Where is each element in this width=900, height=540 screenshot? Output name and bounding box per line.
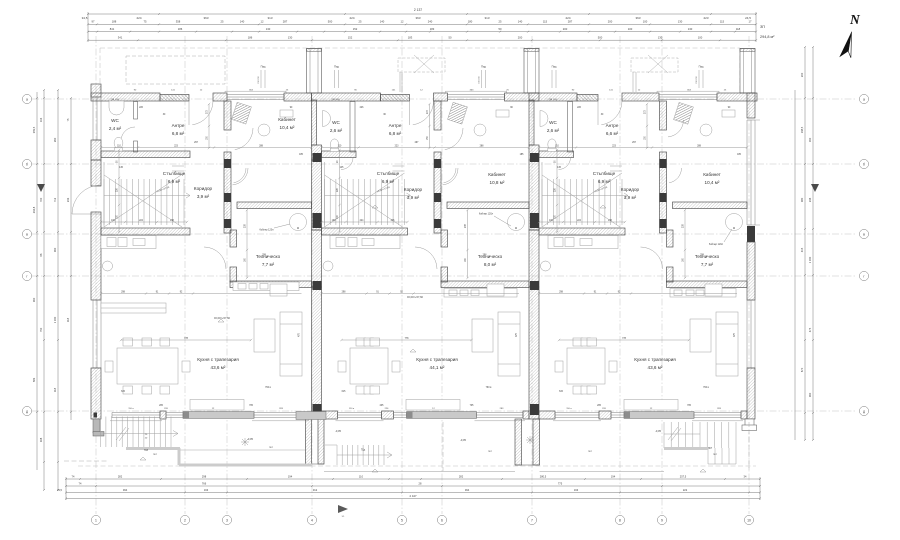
window [112, 413, 160, 418]
window [555, 413, 599, 418]
column [313, 404, 322, 415]
unit C ceiling lamp circle [541, 261, 551, 271]
grid bubbles right [859, 94, 868, 103]
party wall B-C kitchen [529, 287, 539, 419]
window [394, 413, 407, 418]
wall [434, 101, 441, 130]
svg-text:110 в: 110 в [349, 408, 355, 410]
svg-text:бойлер 120л: бойлер 120л [709, 243, 724, 246]
left outer wall lower [91, 368, 101, 419]
svg-text:2 447: 2 447 [410, 494, 417, 498]
bottom section marker [338, 505, 348, 513]
svg-text:6,8 м²: 6,8 м² [172, 131, 185, 136]
unit A kitchen counter along tech wall [233, 282, 299, 291]
svg-text:313: 313 [484, 16, 489, 20]
left terrace wall stub L-shape [93, 419, 100, 433]
stair tower right [740, 49, 755, 94]
wall [322, 228, 408, 235]
svg-text:183: 183 [430, 27, 435, 31]
svg-text:Пад: Пад [481, 65, 486, 69]
unit A cabinet door swing [233, 168, 249, 185]
sliding glass door [183, 412, 254, 419]
terrace B dashed edge [442, 422, 444, 471]
wall [160, 411, 166, 419]
column [313, 213, 322, 228]
svg-text:бойлер 120л: бойлер 120л [479, 213, 494, 216]
svg-text:Антре: Антре [606, 123, 619, 128]
svg-text:ЗП: ЗП [760, 25, 765, 29]
svg-text:110 в: 110 в [566, 408, 572, 410]
svg-text:257,5: 257,5 [680, 474, 687, 478]
svg-text:775: 775 [558, 481, 563, 485]
svg-text:224: 224 [349, 16, 354, 20]
wall [741, 411, 747, 419]
unit C boiler [726, 214, 743, 231]
column [434, 159, 441, 168]
unit A cabinet door swing2 [234, 168, 246, 183]
svg-text:2,6 м²: 2,6 м² [547, 128, 560, 133]
unit A staircase [104, 162, 190, 227]
svg-text:Кабинет: Кабинет [488, 172, 506, 177]
wall [441, 230, 448, 247]
svg-text:312: 312 [313, 488, 318, 492]
wall [447, 202, 529, 209]
svg-text:6,9 м²: 6,9 м² [168, 179, 181, 184]
party wall B-C lower [529, 230, 539, 287]
svg-text:583: 583 [32, 377, 36, 382]
wall [434, 152, 441, 233]
svg-text:240: 240 [428, 20, 433, 24]
svg-text:500: 500 [598, 36, 603, 40]
unit B top wall [505, 93, 540, 101]
left outer wall corner pier [91, 84, 101, 97]
svg-text:224: 224 [136, 16, 141, 20]
svg-text:193: 193 [574, 488, 579, 492]
window [611, 413, 624, 418]
unit C lintel [577, 95, 598, 102]
unit B top window [448, 95, 505, 100]
svg-text:700: 700 [39, 197, 43, 202]
unit C kitchen counter [548, 236, 618, 249]
exterior stair unit B [337, 445, 392, 465]
svg-text:бойлер 120л: бойлер 120л [259, 229, 274, 232]
svg-text:363: 363 [635, 16, 640, 20]
svg-text:1 160: 1 160 [808, 256, 812, 263]
svg-text:9: 9 [661, 519, 663, 523]
svg-text:25: 25 [221, 20, 224, 24]
left entry door swing [72, 185, 101, 214]
svg-text:34,5: 34,5 [82, 16, 88, 20]
sliding glass door [624, 412, 694, 419]
wall [599, 411, 611, 419]
door swing [192, 101, 213, 125]
svg-text:394: 394 [123, 488, 128, 492]
svg-text:Техническо: Техническо [695, 254, 720, 259]
svg-text:760 в: 760 в [265, 387, 271, 389]
svg-text:д: д [863, 410, 865, 414]
exterior stair unit A [101, 417, 179, 448]
svg-text:3: 3 [226, 519, 228, 523]
svg-text:50: 50 [449, 36, 452, 40]
svg-text:2: 2 [184, 519, 186, 523]
svg-text:140: 140 [518, 20, 523, 24]
wall [382, 411, 394, 419]
unit A basin [109, 101, 124, 115]
svg-text:193: 193 [204, 488, 209, 492]
party wall B-C upper [529, 145, 539, 160]
unit C top wall [622, 93, 659, 101]
unit B cabinet door swing [443, 168, 459, 185]
svg-text:43,6 м²: 43,6 м² [211, 365, 226, 370]
grid bubbles bottom [91, 515, 100, 524]
svg-text:в: в [863, 233, 865, 237]
left kitchen window [93, 300, 101, 368]
unit B WC wall [350, 102, 355, 153]
right cabinet window [747, 120, 755, 225]
unit A ceiling lamp circle [103, 261, 113, 271]
svg-text:224: 224 [565, 16, 570, 20]
party wall A-B narrow [312, 100, 317, 145]
svg-text:223: 223 [703, 16, 708, 20]
stair tower B-C [524, 49, 539, 94]
svg-text:180: 180 [468, 20, 473, 24]
grid bubbles left [22, 94, 31, 103]
right outer wall lower [747, 368, 755, 419]
svg-text:7: 7 [531, 519, 533, 523]
svg-text:183: 183 [408, 36, 413, 40]
svg-text:-0,05: -0,05 [335, 429, 341, 433]
left outer wall mid2 [91, 212, 101, 300]
svg-text:24,5: 24,5 [57, 488, 63, 492]
svg-text:в: в [26, 233, 28, 237]
svg-text:841: 841 [110, 27, 115, 31]
svg-text:Кабинет: Кабинет [278, 117, 296, 122]
unit B kitchen counter along tech wall [444, 289, 517, 298]
wall [101, 228, 190, 235]
svg-text:760 в: 760 в [703, 387, 709, 389]
svg-text:б: б [863, 163, 865, 167]
svg-text:194: 194 [288, 474, 293, 478]
svg-text:363: 363 [203, 16, 208, 20]
svg-text:233: 233 [66, 197, 70, 202]
svg-text:П1б: П1б [144, 450, 149, 452]
svg-text:380: 380 [800, 197, 804, 202]
svg-text:118: 118 [736, 27, 741, 31]
svg-text:Пад: Пад [334, 65, 339, 69]
unit C WC door swing [559, 158, 571, 170]
svg-text:П07: П07 [708, 448, 713, 450]
svg-text:260: 260 [53, 137, 57, 142]
unit C bench at bottom wall [624, 400, 678, 411]
svg-text:358: 358 [176, 20, 181, 24]
unit C rooflight dashed [631, 55, 678, 73]
svg-text:WC: WC [549, 120, 557, 125]
svg-text:760 в: 760 в [486, 387, 492, 389]
unit B WC door swing [341, 158, 353, 170]
svg-text:Кухня с трапезария: Кухня с трапезария [634, 357, 676, 362]
left elevation mark [37, 184, 45, 192]
left dimension lines [32, 89, 72, 491]
unit B toilet [330, 139, 338, 150]
unit C basin on party wall [540, 111, 548, 127]
terrace A dashed edge [64, 460, 108, 462]
terrace B outline [324, 471, 515, 473]
svg-text:6: 6 [441, 519, 443, 523]
right dimension lines [795, 46, 814, 441]
svg-text:Техническо: Техническо [478, 254, 503, 259]
wall [667, 281, 748, 288]
sliding glass door [407, 412, 477, 419]
svg-text:341: 341 [118, 36, 123, 40]
svg-text:130: 130 [658, 36, 663, 40]
svg-text:282: 282 [459, 474, 464, 478]
svg-text:б: б [26, 163, 28, 167]
svg-text:198,5: 198,5 [800, 126, 804, 133]
svg-text:194: 194 [611, 474, 616, 478]
door swing [413, 101, 434, 125]
svg-text:670: 670 [800, 367, 804, 372]
wall [230, 230, 237, 247]
left WC window [93, 97, 101, 140]
right elevation mark [811, 184, 819, 192]
svg-text:150 150: 150 150 [258, 76, 260, 84]
svg-text:6,9 м²: 6,9 м² [382, 179, 395, 184]
column [434, 193, 441, 202]
party wall B-C mid [529, 160, 539, 230]
svg-text:2 137: 2 137 [414, 8, 422, 12]
unit C top wall [717, 93, 757, 101]
svg-text:1: 1 [95, 519, 97, 523]
svg-text:294,8: 294,8 [32, 206, 36, 213]
svg-text:130: 130 [266, 27, 271, 31]
svg-text:Стълбище: Стълбище [377, 171, 400, 176]
party wall A-B lower [312, 230, 322, 287]
svg-text:363: 363 [415, 16, 420, 20]
svg-text:200: 200 [518, 36, 523, 40]
terrace C slab edge [664, 447, 708, 450]
terrace divider wall B-C porch [515, 419, 540, 465]
unit B dining table [338, 338, 400, 394]
svg-text:287: 287 [283, 20, 288, 24]
svg-text:7,7 м²: 7,7 м² [701, 262, 714, 267]
unit B ceiling lamp circle [323, 261, 333, 271]
unit C top wall [529, 93, 577, 101]
wall [660, 152, 667, 233]
svg-text:115: 115 [543, 20, 548, 24]
unit A top wall [284, 93, 312, 101]
top dimension lines [82, 8, 757, 42]
svg-text:360: 360 [808, 392, 812, 397]
unit C cabinet desk [674, 102, 735, 136]
terrace C dashed edge [748, 422, 750, 470]
unit B staircase [325, 162, 411, 227]
svg-text:104: 104 [39, 117, 43, 122]
svg-text:500: 500 [328, 20, 333, 24]
svg-text:Кухня с трапезария: Кухня с трапезария [197, 357, 239, 362]
svg-text:8: 8 [619, 519, 621, 523]
svg-text:222: 222 [683, 488, 688, 492]
svg-text:3,9 м²: 3,9 м² [197, 194, 210, 199]
svg-text:3,9 м²: 3,9 м² [624, 195, 637, 200]
column [313, 153, 322, 162]
terrace A slab edge [126, 447, 180, 450]
svg-text:Антре: Антре [172, 123, 185, 128]
wall [667, 267, 674, 282]
svg-text:140: 140 [240, 20, 245, 24]
unit C staircase [542, 162, 628, 227]
wall [539, 411, 555, 419]
unit A window sill [225, 90, 286, 92]
svg-text:50: 50 [499, 27, 502, 31]
unit C cabinet door swing [668, 120, 684, 137]
unit C toilet [548, 139, 556, 150]
svg-text:118: 118 [66, 317, 70, 322]
svg-text:Техническо: Техническо [256, 254, 281, 259]
svg-text:43,6 м²: 43,6 м² [648, 365, 663, 370]
svg-text:282: 282 [118, 474, 123, 478]
svg-text:186: 186 [178, 27, 183, 31]
svg-text:308: 308 [39, 437, 43, 442]
svg-text:-0,05: -0,05 [247, 437, 253, 441]
svg-text:44,1 м²: 44,1 м² [430, 365, 445, 370]
exterior stair unit C upper flight [664, 422, 736, 448]
window [254, 413, 307, 418]
svg-text:д: д [26, 410, 28, 414]
unit A WC wall [134, 102, 138, 120]
unit C top window [659, 95, 717, 100]
unit A dining table [105, 338, 190, 394]
svg-text:Антре: Антре [389, 123, 402, 128]
svg-text:±0,00=+57,60: ±0,00=+57,60 [214, 316, 231, 320]
door swing [601, 101, 622, 125]
svg-text:5: 5 [401, 519, 403, 523]
window [166, 413, 183, 418]
svg-text:287: 287 [568, 20, 573, 24]
unit B lintel [381, 95, 410, 102]
svg-text:130: 130 [678, 20, 683, 24]
svg-text:415: 415 [800, 247, 804, 252]
unit A boiler [290, 214, 307, 231]
svg-text:100: 100 [628, 27, 633, 31]
wall [230, 267, 237, 282]
svg-text:10,4 м²: 10,4 м² [705, 180, 720, 185]
terrace A outline [180, 449, 305, 451]
wall [322, 411, 338, 419]
svg-text:475: 475 [808, 327, 812, 332]
svg-text:12: 12 [401, 20, 404, 24]
unit B kitchen counter [330, 236, 400, 249]
unit B cabinet desk [448, 102, 509, 136]
unit B bench at bottom wall [406, 400, 460, 411]
wall [523, 411, 529, 419]
svg-text:359,5: 359,5 [32, 126, 36, 133]
svg-text:WC: WC [332, 120, 340, 125]
compass flake symbols [241, 438, 249, 446]
north arrow [839, 12, 861, 58]
svg-text:Коридор: Коридор [404, 187, 423, 192]
svg-text:766: 766 [202, 481, 207, 485]
svg-text:WC: WC [111, 118, 119, 123]
svg-text:97: 97 [92, 20, 95, 24]
svg-text:750: 750 [39, 327, 43, 332]
unit A toilet [114, 137, 123, 149]
unit B rooflight dashed [398, 55, 445, 73]
unit B basin on party wall [323, 111, 331, 127]
svg-text:200: 200 [608, 20, 613, 24]
svg-text:152: 152 [348, 36, 353, 40]
window [338, 413, 382, 418]
unit A cabinet door swing upper [235, 128, 253, 150]
unit C dining table [555, 338, 617, 394]
svg-text:24,5: 24,5 [745, 16, 751, 20]
unit C WC wall [568, 102, 573, 153]
unit B top wall [434, 93, 448, 101]
svg-text:298: 298 [202, 474, 207, 478]
svg-text:313: 313 [267, 16, 272, 20]
svg-text:2,6 м²: 2,6 м² [330, 128, 343, 133]
unit B top wall [312, 93, 381, 101]
svg-text:360: 360 [53, 247, 57, 252]
svg-text:6,9 м²: 6,9 м² [598, 179, 611, 184]
svg-text:25: 25 [499, 20, 502, 24]
svg-text:Пад: Пад [552, 65, 557, 69]
unit A WC door swing [121, 127, 135, 141]
svg-text:2,4 м²: 2,4 м² [109, 126, 122, 131]
unit A interior dimension strings [101, 147, 312, 149]
svg-text:Стълбище: Стълбище [593, 171, 616, 176]
svg-text:394: 394 [465, 488, 470, 492]
unit A tech door swing [204, 247, 226, 269]
terrace divider wall A-B [306, 419, 325, 464]
unit C cabinet door swing2 [669, 168, 681, 183]
svg-text:118: 118 [53, 387, 57, 392]
left outer wall mid [91, 160, 101, 186]
stair tower A-B [307, 49, 322, 94]
svg-text:110: 110 [359, 474, 364, 478]
svg-text:100: 100 [643, 20, 648, 24]
svg-text:П1д: П1д [361, 450, 366, 452]
column [530, 404, 539, 415]
unit A kitchen counter [101, 236, 156, 249]
unit B cabinet door swing upper [445, 128, 463, 150]
wall [441, 267, 448, 282]
unit B WC bottom wall [322, 151, 357, 158]
wall [224, 152, 231, 233]
svg-text:25: 25 [359, 20, 362, 24]
right outer wall mid [747, 242, 755, 300]
wall [230, 281, 312, 288]
window [694, 413, 741, 418]
svg-text:-0,05: -0,05 [460, 438, 466, 442]
party wall A-B kitchen [312, 287, 322, 419]
unit A top wall [91, 93, 160, 101]
unit A lintel [160, 95, 189, 102]
svg-text:±0,00=+57,60: ±0,00=+57,60 [407, 295, 424, 299]
svg-text:Коридор: Коридор [621, 187, 640, 192]
unit A bench at bottom wall [190, 400, 244, 411]
svg-text:130: 130 [288, 36, 293, 40]
svg-text:100: 100 [698, 36, 703, 40]
svg-text:Стълбище: Стълбище [163, 171, 186, 176]
unit B boiler [508, 214, 525, 231]
unit A WC bottom wall [101, 151, 190, 158]
svg-text:186: 186 [248, 36, 253, 40]
svg-text:280,5: 280,5 [540, 474, 547, 478]
wall [224, 101, 231, 130]
wall [667, 230, 674, 247]
right wall column [747, 226, 755, 242]
svg-text:150 150: 150 150 [479, 76, 481, 84]
